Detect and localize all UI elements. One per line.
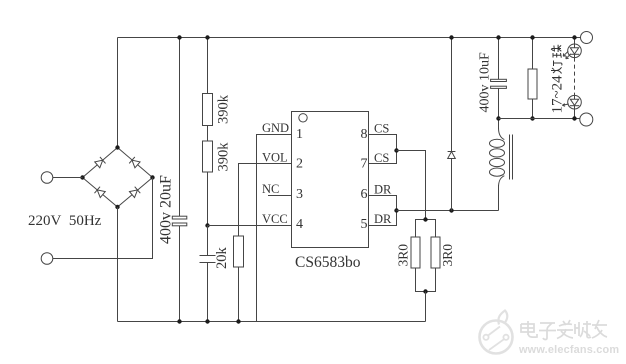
node bridge right bbox=[150, 175, 154, 179]
resistor R4 3R0 bbox=[411, 237, 420, 268]
svg-text:390k: 390k bbox=[216, 142, 232, 172]
svg-text:5: 5 bbox=[361, 217, 368, 232]
svg-text:4: 4 bbox=[296, 217, 303, 232]
wire sense to bottom rail bbox=[425, 292, 427, 322]
wire NC stub pin3 bbox=[268, 195, 292, 197]
svg-text:DR: DR bbox=[374, 212, 392, 226]
resistor R3 20k bbox=[239, 164, 292, 237]
terminal AC neutral bbox=[41, 253, 53, 265]
LED LED2 bbox=[568, 95, 582, 109]
wire R3 to bottom rail bbox=[238, 267, 240, 322]
svg-text:6: 6 bbox=[361, 187, 368, 202]
pin-1 indicator circle bbox=[299, 114, 307, 122]
wire sense merge bar bbox=[416, 268, 436, 292]
node CS junction bbox=[394, 148, 398, 152]
diode D5 freewheel bbox=[451, 38, 453, 152]
node top rail / C3 bbox=[496, 35, 500, 39]
wire output bottom bbox=[499, 118, 581, 120]
wire CS pins 8-7 tie bbox=[369, 135, 397, 164]
label 17~24 lamp beads bbox=[550, 45, 566, 114]
node C3 / L1 bbox=[496, 116, 500, 120]
svg-text:CS6583bo: CS6583bo bbox=[295, 254, 361, 271]
svg-text:VCC: VCC bbox=[262, 212, 288, 226]
watermark text dianzifashaoyou bbox=[521, 320, 607, 340]
wire dashed LED string bbox=[574, 58, 576, 96]
svg-text:GND: GND bbox=[262, 121, 289, 135]
svg-text:220V 50Hz: 220V 50Hz bbox=[28, 213, 102, 229]
svg-text:VOL: VOL bbox=[262, 151, 288, 165]
wire left drop to bridge bbox=[117, 38, 119, 148]
diode D3 (bridge lower-left) bbox=[94, 187, 105, 198]
wire GND pin1 to bottom rail bbox=[257, 135, 292, 322]
LED string upper lead bbox=[574, 38, 576, 45]
resistor R6 bbox=[532, 38, 534, 70]
svg-text:8: 8 bbox=[361, 127, 368, 142]
wire R2 to VCC node bbox=[207, 172, 209, 226]
svg-text:7: 7 bbox=[361, 157, 368, 172]
wire VCC to pin4 bbox=[208, 225, 292, 227]
wire DR to transformer bbox=[397, 210, 499, 212]
bridge rectifier diamond wires bbox=[83, 148, 153, 208]
node top rail / C1 bbox=[177, 35, 181, 39]
terminal output + bbox=[581, 32, 593, 44]
op-amp U1 CS6583bo body bbox=[292, 112, 369, 248]
node bottom rail / C2 bbox=[205, 319, 209, 323]
wire top rail bbox=[118, 37, 581, 39]
node DR junction bbox=[394, 208, 398, 212]
svg-text:NC: NC bbox=[262, 182, 279, 196]
diode D2 (bridge upper-right) bbox=[129, 157, 140, 168]
svg-text:20k: 20k bbox=[214, 247, 230, 270]
wire sense split bar bbox=[416, 220, 436, 238]
capacitor C1 400v 20uF bbox=[179, 38, 181, 217]
resistor R2 390k bbox=[203, 141, 213, 172]
capacitor C2 (VCC bypass) bbox=[207, 226, 209, 256]
node bottom rail / R3 bbox=[236, 319, 240, 323]
svg-text:1: 1 bbox=[296, 127, 303, 142]
svg-text:www.elecfans.com: www.elecfans.com bbox=[518, 344, 619, 356]
node top rail / R1 bbox=[205, 35, 209, 39]
wire DR pins 6-5 tie bbox=[369, 196, 397, 226]
node DR / diode branch bbox=[449, 208, 453, 212]
svg-text:2: 2 bbox=[296, 157, 303, 172]
node bridge left bbox=[80, 175, 84, 179]
terminal output - bbox=[580, 113, 593, 126]
LED2 emission arrows bbox=[562, 104, 569, 107]
LED1 emission arrows bbox=[563, 51, 571, 59]
wire bottom rail bbox=[118, 321, 426, 323]
svg-text:3R0: 3R0 bbox=[440, 244, 455, 267]
node top rail / R6 bbox=[530, 35, 534, 39]
svg-text:17~24: 17~24 bbox=[550, 75, 566, 114]
svg-text:3: 3 bbox=[296, 187, 303, 202]
glyph deng (lamp) bbox=[551, 61, 562, 74]
resistor R1 390k bbox=[207, 38, 209, 94]
svg-text:CS: CS bbox=[374, 151, 389, 165]
svg-text:400v 10uF: 400v 10uF bbox=[478, 52, 493, 113]
LED LED1 bbox=[568, 44, 582, 58]
svg-text:DR: DR bbox=[374, 183, 392, 197]
svg-text:CS: CS bbox=[374, 122, 389, 136]
capacitor C3 400v 10uF bbox=[498, 38, 500, 80]
svg-text:400v 20uF: 400v 20uF bbox=[158, 175, 175, 244]
transformer core bbox=[509, 135, 511, 180]
watermark logo circle bbox=[480, 311, 513, 354]
node top rail / LED string bbox=[572, 35, 576, 39]
node bottom rail / C1 bbox=[177, 319, 181, 323]
inductor L1 primary bbox=[498, 119, 500, 130]
wire CS to sense resistors bbox=[397, 151, 426, 220]
node bottom wire / R6 bbox=[530, 116, 534, 120]
diode D1 (bridge upper-left) bbox=[94, 157, 105, 168]
wire neutral to bridge right bbox=[53, 178, 153, 259]
node bridge bottom bbox=[115, 205, 119, 209]
glyph zhu (bead) bbox=[551, 45, 561, 58]
wire between R1 R2 bbox=[207, 126, 209, 142]
node sense merge bbox=[423, 289, 427, 293]
svg-text:3R0: 3R0 bbox=[396, 244, 411, 267]
wire bridge bottom to ground rail bbox=[117, 207, 119, 322]
diode D4 (bridge lower-right) bbox=[129, 187, 140, 198]
terminal AC live bbox=[41, 172, 53, 184]
node bottom wire / LED string bbox=[572, 116, 576, 120]
node VCC junction bbox=[205, 223, 209, 227]
node sense split bbox=[423, 217, 427, 221]
svg-text:390k: 390k bbox=[216, 94, 232, 124]
node bridge top bbox=[115, 145, 119, 149]
resistor R5 3R0 bbox=[431, 237, 440, 268]
node top rail / D5 bbox=[449, 35, 453, 39]
wire live to bridge bbox=[53, 177, 83, 179]
